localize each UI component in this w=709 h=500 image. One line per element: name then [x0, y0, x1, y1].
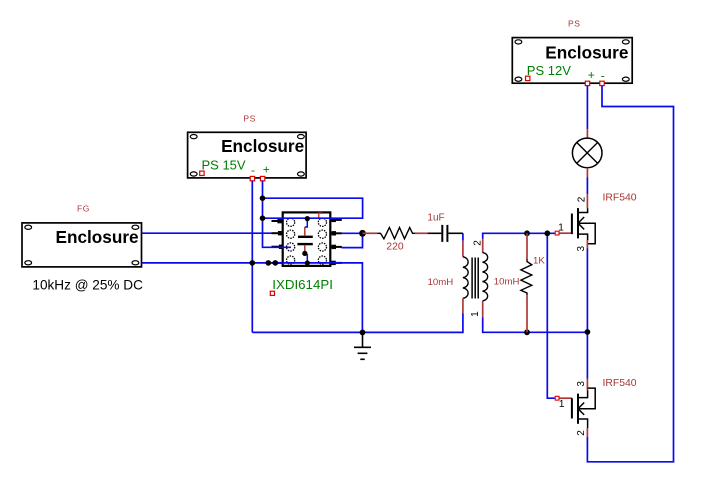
junction ground: [360, 330, 366, 336]
junction minus rail FG bottom: [250, 260, 256, 266]
pin plus PS2: [585, 68, 595, 86]
junction gate branch: [544, 230, 550, 236]
wire secondary bottom rail: [483, 318, 588, 333]
mosfet Q2 IRF540: [555, 379, 595, 437]
wire node A to IC pin6: [342, 233, 363, 247]
pin square IXDI614PI: [270, 291, 274, 295]
wire ground rail right to transformer primary: [363, 313, 463, 332]
transformer T1 primary: [463, 241, 468, 314]
pin square PS2 corner: [526, 76, 530, 80]
capacitor C1 1uF: [428, 225, 463, 242]
svg-text:IXDI614PI: IXDI614PI: [272, 277, 333, 292]
svg-text:10kHz @ 25% DC: 10kHz @ 25% DC: [32, 278, 143, 293]
svg-text:+: +: [588, 68, 595, 82]
svg-text:2: 2: [577, 196, 588, 202]
wire FG bottom through IC pin4 pin5 down to ground: [142, 263, 363, 333]
svg-text:10mH: 10mH: [494, 277, 520, 288]
pin minus PS2: [600, 69, 605, 86]
enclosure PS1 15V: [188, 132, 307, 178]
svg-text:Enclosure: Enclosure: [55, 227, 138, 247]
svg-text:3: 3: [576, 246, 587, 252]
svg-text:Enclosure: Enclosure: [545, 43, 628, 63]
junction source rail: [585, 329, 591, 335]
svg-text:1: 1: [470, 311, 481, 317]
wire pin8 loop: [263, 198, 363, 218]
junction plus rail top: [260, 195, 266, 201]
enclosure PS2 12V: [512, 38, 632, 84]
resistor R1 220: [363, 228, 428, 239]
resistor R2 1K: [521, 233, 532, 332]
enclosure FG: [22, 223, 142, 267]
wire gate branch to Q2: [547, 233, 555, 398]
lamp X1: [572, 129, 602, 177]
transformer T1 core: [472, 258, 478, 299]
pin plus PS1: [260, 163, 269, 181]
svg-text:PS: PS: [243, 114, 256, 124]
junction IC bottom center: [305, 260, 310, 265]
wire PS2 minus to Q2 drain: [587, 86, 673, 462]
svg-text:220: 220: [386, 242, 404, 253]
wire secondary top to Q1 gate: [483, 233, 556, 238]
junction plus rail pin8: [260, 215, 266, 221]
svg-text:+: +: [263, 163, 270, 177]
junction IC cap top: [305, 216, 310, 221]
svg-text:3: 3: [576, 381, 587, 387]
junction 1K bottom: [524, 329, 530, 335]
wire IC pin7 to node A: [342, 232, 363, 234]
wire PS1 minus down to ground rail: [251, 181, 253, 333]
svg-text:FG: FG: [77, 204, 90, 214]
wire FG top to IC pin2: [142, 232, 273, 234]
junction node A: [359, 230, 366, 237]
svg-text:-: -: [601, 69, 605, 83]
wire PS2 plus to lamp: [586, 86, 588, 129]
ground: [354, 332, 371, 359]
svg-text:PS 15V: PS 15V: [202, 157, 246, 172]
transformer T1 secondary: [483, 239, 488, 318]
svg-text:-: -: [251, 163, 255, 177]
pin minus PS1: [250, 163, 255, 181]
wire PS1 plus down with pin3 branch: [263, 181, 292, 248]
svg-text:IRF540: IRF540: [603, 378, 637, 389]
svg-text:1: 1: [559, 399, 565, 410]
wire ground rail left: [252, 331, 362, 333]
junction pin4 dots: [266, 260, 279, 266]
junction 1K top: [524, 230, 530, 236]
wire capacitor to primary top: [462, 233, 464, 240]
svg-text:1K: 1K: [533, 256, 545, 267]
svg-text:PS 12V: PS 12V: [527, 63, 571, 78]
pin square PS1 corner: [200, 171, 204, 175]
svg-text:1: 1: [558, 223, 564, 234]
ic U1 IXDI614PI: [272, 212, 342, 266]
svg-text:Enclosure: Enclosure: [221, 136, 304, 156]
svg-text:2: 2: [472, 240, 483, 246]
svg-text:IRF540: IRF540: [603, 192, 637, 203]
svg-text:PS: PS: [568, 19, 581, 29]
junction IC cap bottom: [302, 251, 307, 256]
svg-text:10mH: 10mH: [428, 277, 454, 288]
wire lamp to Q1 drain: [586, 177, 588, 194]
svg-text:2: 2: [576, 430, 587, 436]
svg-text:1uF: 1uF: [427, 213, 444, 224]
mosfet Q1 IRF540: [555, 194, 595, 248]
wire Q1 source to Q2 source: [586, 249, 588, 379]
